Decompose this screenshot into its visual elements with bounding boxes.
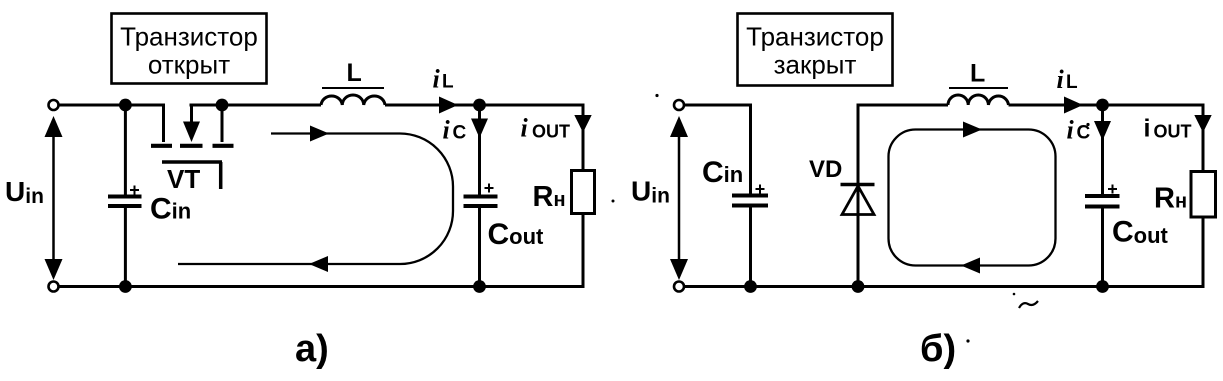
capacitor Cout (b)	[1085, 185, 1120, 207]
svg-text:Rн: Rн	[1154, 183, 1187, 215]
svg-text:C: C	[453, 123, 467, 144]
wire Cin bottom lead (b)	[749, 206, 752, 287]
svg-text:i: i	[1057, 65, 1065, 94]
wire inductor to output corner (a)	[385, 104, 585, 107]
squiggle artifact (b)	[1019, 301, 1038, 308]
capacitor Cout (a)	[464, 184, 498, 207]
wire diode to inductor (b)	[858, 104, 948, 107]
current loop arrow (b)	[889, 122, 1056, 274]
node Cout bottom junction (b)	[1096, 280, 1109, 293]
svg-text:i: i	[433, 65, 441, 94]
wire Cout top lead (a)	[478, 105, 481, 196]
capacitor Cin (b)	[732, 185, 768, 206]
svg-text:Cout: Cout	[1112, 216, 1169, 249]
svg-text:Транзистор: Транзистор	[120, 22, 258, 52]
input terminal bottom-left (b)	[674, 282, 684, 292]
arrowhead iL (b)	[1064, 97, 1083, 114]
inductor L overline (a)	[322, 87, 384, 89]
label box "Транзистор закрыт"	[738, 14, 893, 86]
svg-text:а): а)	[295, 328, 329, 370]
wire load branch top (b)	[1202, 104, 1205, 173]
svg-text:Cout: Cout	[488, 218, 545, 251]
wire Cout top lead (b)	[1101, 105, 1104, 196]
Uin arrow (a)	[45, 116, 63, 280]
node Cin bottom junction (b)	[744, 280, 757, 293]
svg-text:Rн: Rн	[533, 181, 566, 213]
wire top input to transistor drain (a)	[59, 105, 164, 142]
svg-text:L: L	[1066, 72, 1078, 93]
svg-text:i: i	[443, 116, 451, 145]
capacitor Cin (a)	[108, 186, 142, 207]
input terminal top-left (a)	[49, 100, 59, 110]
current loop arrow (a)	[178, 126, 453, 273]
svg-text:i: i	[1067, 116, 1075, 145]
svg-text:открыт: открыт	[148, 50, 230, 80]
svg-text:закрыт: закрыт	[774, 50, 857, 80]
input terminal bottom-left (a)	[49, 282, 59, 292]
speck artifacts (b)	[655, 94, 1089, 343]
inductor L overline (b)	[949, 87, 1008, 89]
svg-text:Cin: Cin	[702, 156, 743, 189]
transistor VT (a)	[151, 105, 234, 189]
svg-text:Uin: Uin	[631, 176, 670, 208]
svg-text:L: L	[970, 60, 985, 88]
svg-text:VT: VT	[167, 164, 200, 194]
svg-text:OUT: OUT	[532, 122, 570, 142]
svg-text:i: i	[521, 114, 529, 143]
label box "Транзистор открыт"	[112, 14, 267, 84]
inductor L (a)	[321, 95, 385, 105]
svg-text:Cin: Cin	[150, 193, 191, 226]
wire transistor to inductor (a)	[190, 104, 322, 107]
svg-text:L: L	[442, 72, 454, 93]
wire top input to Cin (b)	[684, 105, 751, 195]
wire load branch bottom (a)	[582, 214, 585, 289]
Uin arrow (b)	[670, 116, 688, 280]
arrowhead iC (b)	[1094, 121, 1111, 141]
svg-text:Транзистор: Транзистор	[746, 22, 884, 52]
wire bottom rail (a)	[59, 285, 585, 288]
svg-text:i: i	[1144, 115, 1151, 143]
speck artifact (a)	[612, 200, 615, 203]
svg-text:VD: VD	[809, 156, 842, 183]
wire Cin bottom lead (a)	[124, 206, 127, 287]
node Cout top junction (b)	[1096, 99, 1109, 112]
node VT source junction (a)	[216, 99, 229, 112]
node Cin top junction (a)	[119, 99, 132, 112]
wire bottom rail (b)	[684, 285, 1205, 288]
wire load branch bottom (b)	[1202, 217, 1205, 289]
arrowhead iC (a)	[471, 119, 488, 139]
diode VD (b)	[841, 185, 875, 215]
node Cout top junction (a)	[473, 99, 486, 112]
svg-text:Uin: Uin	[5, 176, 44, 208]
input terminal top-left (b)	[674, 100, 684, 110]
svg-text:б): б)	[920, 328, 956, 370]
node Cin bottom junction (a)	[119, 280, 132, 293]
arrowhead iOUT (b)	[1194, 115, 1211, 133]
arrowhead iL (a)	[439, 97, 458, 114]
node diode bottom junction (b)	[852, 280, 865, 293]
wire Cin top lead (a)	[124, 105, 127, 196]
arrowhead iOUT (a)	[574, 115, 591, 133]
resistor Rн (a)	[572, 171, 595, 214]
wire diode branch (b)	[857, 104, 860, 287]
node Cout bottom junction (a)	[473, 280, 486, 293]
svg-text:L: L	[347, 59, 362, 87]
wire load branch top (a)	[582, 104, 585, 172]
svg-text:OUT: OUT	[1154, 122, 1192, 142]
resistor Rн (b)	[1191, 172, 1216, 218]
wire inductor to output corner (b)	[1009, 104, 1205, 107]
wire Cout bottom lead (b)	[1101, 207, 1104, 287]
wire Cout bottom lead (a)	[478, 206, 481, 287]
inductor L (b)	[948, 95, 1009, 105]
